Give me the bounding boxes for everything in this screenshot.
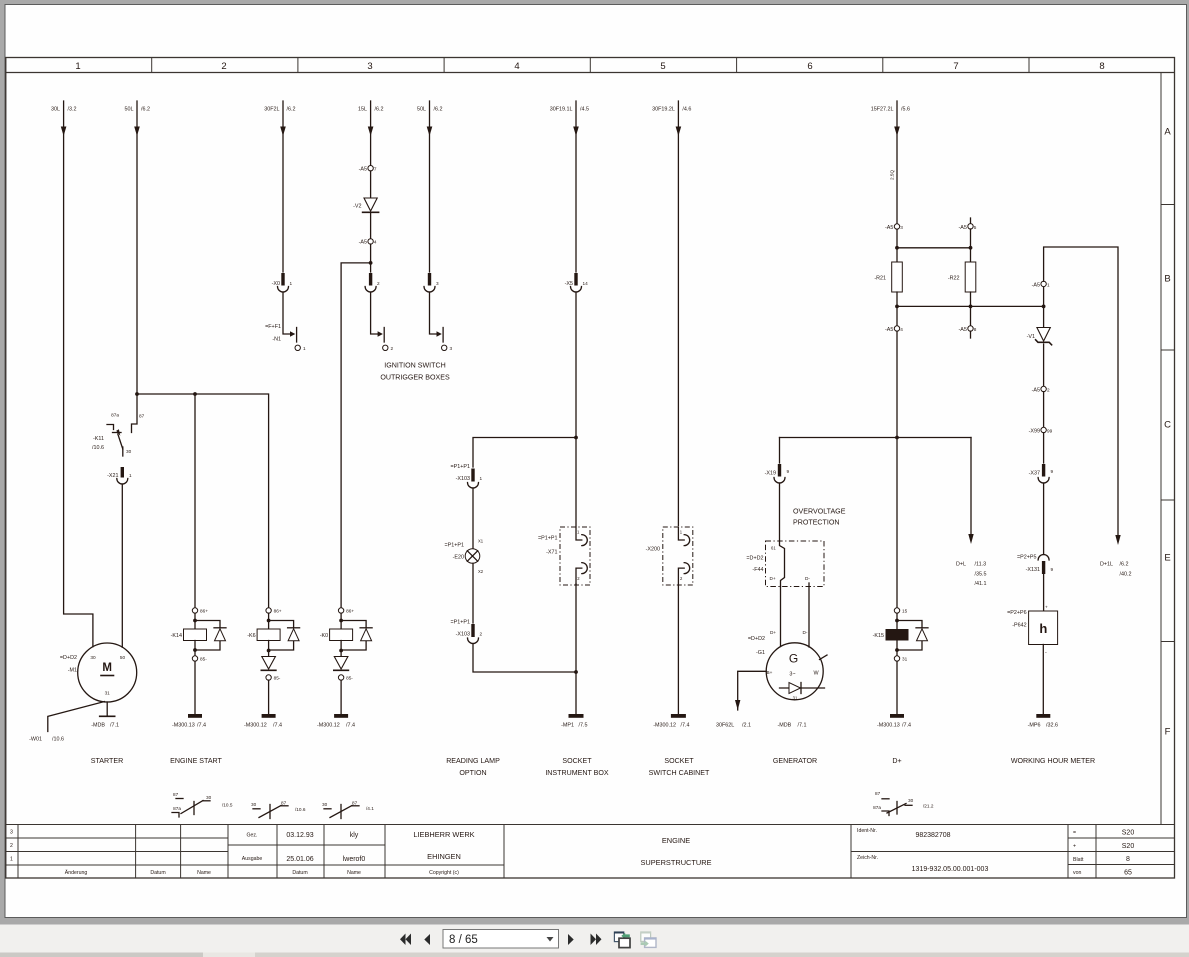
svg-text:2: 2 [480, 632, 483, 637]
svg-text:-R21: -R21 [874, 276, 886, 282]
svg-text:Ausgabe: Ausgabe [242, 856, 263, 862]
svg-text:/7.4: /7.4 [346, 723, 355, 729]
svg-text:25.01.06: 25.01.06 [286, 856, 313, 863]
svg-text:-M300.13: -M300.13 [172, 723, 195, 729]
svg-text:-MDB: -MDB [778, 723, 792, 729]
wire 15L feed [370, 101, 372, 166]
svg-text:SOCKET: SOCKET [664, 757, 694, 765]
svg-text:/6.2: /6.2 [1120, 562, 1129, 568]
svg-text:-X131: -X131 [1026, 567, 1040, 573]
wire top bus to R22 [897, 247, 971, 249]
svg-text:4: 4 [374, 240, 377, 245]
wire branch to K0 [341, 263, 371, 607]
relay contact -K11 [132, 394, 138, 433]
svg-text:31: 31 [902, 657, 908, 662]
svg-text:-A5: -A5 [359, 240, 367, 246]
connector -X19 pin 9 [779, 438, 781, 464]
svg-text:SUPERSTRUCTURE: SUPERSTRUCTURE [640, 858, 711, 867]
svg-text:/3.2: /3.2 [68, 107, 77, 113]
svg-text:Datum: Datum [292, 870, 307, 876]
connector -X103 pin 1 [471, 469, 474, 482]
svg-text:2: 2 [1047, 388, 1050, 393]
svg-text:86+: 86+ [200, 609, 208, 614]
connector pin 2 [369, 273, 372, 286]
terminal -A5 pin 4 lower [894, 326, 899, 331]
svg-text:/7.5: /7.5 [579, 723, 588, 729]
svg-text:3~: 3~ [789, 672, 795, 678]
wire D+1L branch [1044, 247, 1118, 537]
svg-text:lwerof0: lwerof0 [343, 856, 366, 863]
svg-text:4: 4 [900, 327, 903, 332]
svg-text:-X71: -X71 [546, 550, 557, 556]
svg-text:31: 31 [793, 696, 798, 701]
svg-text:D+1L: D+1L [1100, 562, 1113, 568]
svg-text:B+: B+ [767, 670, 773, 675]
svg-text:=P2+P5: =P2+P5 [1017, 555, 1036, 561]
diode generator internal [780, 687, 825, 689]
svg-text:-M300.12: -M300.12 [244, 723, 267, 729]
svg-text:-X37: -X37 [1029, 471, 1040, 477]
svg-text:-K11: -K11 [93, 436, 104, 442]
svg-text:-X21: -X21 [107, 473, 118, 479]
starter motor -M1 [78, 643, 137, 702]
svg-text:=: = [1073, 830, 1076, 836]
svg-text:OUTRIGGER BOXES: OUTRIGGER BOXES [380, 374, 450, 382]
svg-text:15L: 15L [358, 107, 367, 113]
page number combobox [443, 930, 559, 949]
svg-text:3: 3 [367, 61, 372, 72]
overvoltage protection -F44 box [766, 541, 825, 587]
wire 30F19.1L feed [575, 101, 577, 272]
toolbar strip [0, 919, 1189, 957]
wire 30F2L feed [282, 101, 284, 272]
wire motor ground [106, 702, 108, 716]
svg-text:30: 30 [322, 802, 328, 807]
svg-text:-A5: -A5 [359, 167, 367, 173]
next view icon (disabled) [641, 932, 651, 941]
relay coil -K6 [266, 608, 271, 613]
wire F44 to generator D+ [780, 587, 782, 647]
svg-text:-M300.13: -M300.13 [877, 723, 900, 729]
svg-text:2: 2 [377, 281, 380, 286]
svg-text:Ident-Nr.: Ident-Nr. [857, 828, 877, 834]
svg-text:=D+D2: =D+D2 [746, 556, 763, 562]
first page button [400, 934, 406, 946]
svg-text:50L: 50L [125, 107, 134, 113]
svg-text:5: 5 [660, 61, 665, 72]
svg-text:Name: Name [347, 870, 361, 876]
svg-text:2: 2 [221, 61, 226, 72]
terminal -A5 pin 4 [370, 213, 372, 239]
svg-text:EHINGEN: EHINGEN [427, 852, 461, 861]
resistor -R21 [892, 262, 903, 292]
svg-text:E: E [1164, 553, 1170, 564]
svg-text:/6.2: /6.2 [375, 107, 384, 113]
svg-text:WORKING HOUR METER: WORKING HOUR METER [1011, 757, 1095, 765]
svg-text:8 / 65: 8 / 65 [449, 934, 478, 946]
svg-text:4: 4 [514, 61, 519, 72]
W terminal stub [820, 655, 828, 660]
svg-text:/7.1: /7.1 [798, 723, 807, 729]
wire K15 ground [896, 661, 898, 714]
svg-text:OVERVOLTAGE: OVERVOLTAGE [793, 508, 846, 516]
svg-text:/2.1: /2.1 [742, 723, 751, 729]
connector -X103 pin 2 [471, 624, 474, 637]
svg-text:15: 15 [902, 609, 908, 614]
svg-text:87: 87 [281, 801, 287, 806]
svg-text:14: 14 [583, 281, 589, 286]
svg-text:1319-932.05.00.001-003: 1319-932.05.00.001-003 [912, 866, 989, 873]
svg-text:-A5: -A5 [959, 225, 967, 231]
svg-text:-M300.12: -M300.12 [317, 723, 340, 729]
svg-text:-: - [1045, 650, 1047, 656]
right letters column [1160, 73, 1162, 825]
svg-text:=D+D2: =D+D2 [748, 636, 765, 642]
hour meter -P642 [1029, 611, 1058, 645]
node R21 top [896, 229, 898, 262]
wire [1043, 483, 1045, 555]
svg-text:D+: D+ [770, 630, 776, 635]
socket -X71 dashed box [560, 527, 590, 585]
svg-text:1: 1 [10, 857, 13, 863]
svg-text:/7.4: /7.4 [681, 723, 690, 729]
svg-text:-X103: -X103 [456, 476, 470, 482]
node 50L bus [135, 392, 139, 396]
svg-text:30L: 30L [51, 107, 60, 113]
diode K6 series [262, 657, 276, 670]
svg-text:-X5: -X5 [565, 281, 573, 287]
svg-text:Blatt: Blatt [1073, 857, 1084, 863]
svg-text:-X103: -X103 [456, 632, 470, 638]
svg-text:/10.6: /10.6 [52, 737, 64, 743]
node junction 15L branch to K0 [370, 244, 372, 272]
svg-text:87: 87 [173, 792, 179, 797]
svg-text:/7.4: /7.4 [273, 723, 282, 729]
svg-text:-M300.12: -M300.12 [653, 723, 676, 729]
ground -M300.12 [671, 714, 686, 718]
wire 50L feed to K11/bus [136, 101, 138, 394]
svg-text:-R22: -R22 [948, 276, 960, 282]
last page button [591, 934, 597, 946]
svg-text:85-: 85- [346, 676, 353, 681]
svg-text:1: 1 [1047, 282, 1050, 287]
svg-text:982382708: 982382708 [915, 832, 950, 839]
svg-text:/7.4: /7.4 [197, 723, 206, 729]
svg-text:-A5: -A5 [1032, 388, 1040, 394]
relay coil -K14 [192, 608, 197, 613]
svg-text:03.12.93: 03.12.93 [286, 832, 313, 839]
svg-text:/6.2: /6.2 [287, 107, 296, 113]
lamp -E20 [465, 549, 480, 564]
wire generator bus [780, 437, 972, 439]
svg-text:6: 6 [807, 61, 812, 72]
svg-text:/41.1: /41.1 [975, 581, 987, 587]
svg-text:Änderung: Änderung [65, 869, 88, 876]
svg-text:-X0: -X0 [272, 281, 280, 287]
svg-text:/7.1: /7.1 [110, 723, 119, 729]
svg-text:/4.5: /4.5 [580, 107, 589, 113]
socket -X200 dashed box [663, 527, 693, 585]
wire K14 feed [194, 394, 196, 607]
svg-text:X2: X2 [478, 569, 484, 574]
svg-text:ENGINE START: ENGINE START [170, 757, 222, 765]
svg-text:87a: 87a [873, 805, 881, 810]
header column numbers [75, 61, 1104, 72]
previous view icon [614, 932, 623, 942]
svg-text:/11.3: /11.3 [975, 562, 987, 568]
svg-text:-M1: -M1 [68, 668, 77, 674]
wire + terminal 3 ignition [430, 292, 437, 334]
svg-text:7: 7 [953, 61, 958, 72]
wire lamp return [473, 644, 576, 673]
svg-text:/7.4: /7.4 [902, 723, 911, 729]
svg-text:15F27.2L: 15F27.2L [871, 107, 894, 113]
connector -X21 pin 1 [121, 467, 124, 478]
svg-text:85-: 85- [274, 676, 281, 681]
svg-text:M: M [102, 662, 112, 674]
generator -G1 [766, 643, 823, 700]
header band bottom line [6, 72, 1175, 74]
svg-text:-F44: -F44 [752, 567, 763, 573]
terminal -A5 pin 5 [970, 218, 972, 224]
svg-text:/4.6: /4.6 [682, 107, 691, 113]
wire bottom bus [897, 292, 971, 326]
svg-text:/6.2: /6.2 [141, 107, 150, 113]
svg-text:65: 65 [1124, 870, 1132, 877]
svg-text:-A5: -A5 [885, 327, 893, 333]
terminal -A5 pin 3 [894, 224, 899, 229]
svg-text:1: 1 [75, 61, 80, 72]
terminal -A5 pin 7 [368, 166, 373, 171]
wire -W01 cable [48, 702, 105, 732]
wire B+ to 30F62L [738, 671, 767, 710]
svg-text:-A5: -A5 [959, 327, 967, 333]
wire K6 ground [268, 680, 270, 714]
relay coil -K15 [894, 608, 899, 613]
diode K6 suppressor [269, 621, 294, 651]
svg-text:30: 30 [126, 449, 132, 454]
svg-text:h: h [1039, 621, 1047, 636]
svg-text:87: 87 [352, 801, 358, 806]
svg-text:=P1+P1: =P1+P1 [451, 620, 470, 626]
resistor -R22 [965, 262, 976, 292]
svg-text:READING LAMP: READING LAMP [446, 757, 500, 765]
svg-text:1: 1 [129, 473, 132, 478]
svg-text:30F19.2L: 30F19.2L [652, 107, 675, 113]
svg-text:3: 3 [450, 346, 453, 351]
wire [472, 488, 474, 549]
header column dividers [152, 58, 1029, 73]
svg-text:/5.6: /5.6 [901, 107, 910, 113]
svg-text:D+: D+ [892, 757, 901, 765]
svg-text:9: 9 [1051, 567, 1054, 572]
svg-text:99: 99 [1047, 429, 1053, 434]
svg-text:+: + [1073, 844, 1076, 850]
svg-text:87: 87 [139, 414, 145, 419]
svg-text:Zeich-Nr.: Zeich-Nr. [857, 855, 878, 861]
diode -V2 [370, 171, 372, 198]
wire down to lamp bus [575, 292, 577, 438]
wire [779, 483, 781, 541]
wire reading lamp branch [473, 438, 576, 468]
wire to starter 50 [121, 484, 123, 647]
node lamp branch [574, 436, 578, 440]
diode -V1 [1043, 306, 1045, 327]
connector -X5 pin 14 [574, 273, 577, 286]
svg-text:30: 30 [206, 795, 212, 800]
svg-text:kly: kly [350, 832, 359, 839]
svg-text:31: 31 [105, 691, 111, 696]
svg-text:/6.2: /6.2 [434, 107, 443, 113]
wire 30L feed to starter [64, 101, 93, 647]
svg-text:-E20: -E20 [453, 555, 464, 561]
wire D+L branch [970, 438, 972, 537]
wire K0 ground [340, 680, 342, 714]
svg-text:=P1+P1: =P1+P1 [538, 536, 557, 542]
svg-text:LIEBHERR WERK: LIEBHERR WERK [413, 830, 474, 839]
svg-text:D+: D+ [770, 576, 776, 581]
svg-text:-X19: -X19 [765, 471, 776, 477]
svg-text:86+: 86+ [346, 609, 354, 614]
svg-text:-V1: -V1 [1027, 334, 1035, 340]
wire to ground [677, 585, 679, 714]
svg-text:-X99: -X99 [1029, 429, 1040, 435]
svg-text:-K0: -K0 [320, 633, 328, 639]
svg-text:Gez.: Gez. [247, 833, 258, 839]
svg-text:D-: D- [803, 630, 808, 635]
svg-text:GENERATOR: GENERATOR [773, 757, 817, 765]
diode K14 suppressor [195, 621, 220, 651]
next page button [568, 934, 574, 945]
svg-text:=F+F1: =F+F1 [265, 324, 281, 330]
terminal -A5 pin 2 [1043, 344, 1045, 386]
svg-text:-N1: -N1 [272, 337, 281, 343]
svg-text:ENGINE: ENGINE [662, 836, 690, 845]
svg-text:2: 2 [391, 346, 394, 351]
svg-text:30: 30 [90, 655, 96, 660]
svg-text:=D+D2: =D+D2 [60, 655, 77, 661]
svg-text:X1: X1 [478, 539, 484, 544]
svg-text:1: 1 [303, 346, 306, 351]
svg-text:87a: 87a [173, 806, 181, 811]
svg-text:G: G [789, 652, 798, 666]
svg-text:+: + [1045, 605, 1048, 610]
diode K15 suppressor [897, 621, 922, 651]
svg-text:-K14: -K14 [171, 633, 182, 639]
connector -X131 pin 9 [1038, 555, 1049, 561]
title block grid [6, 825, 1175, 879]
prev page button [424, 934, 430, 945]
svg-text:1: 1 [480, 476, 483, 481]
ground -MP1 [569, 714, 584, 718]
svg-text:-K6: -K6 [247, 633, 255, 639]
svg-text:87: 87 [875, 791, 881, 796]
svg-text:3: 3 [10, 830, 13, 836]
connector -X37 pin 9 [1043, 433, 1045, 463]
svg-text:30F62L: 30F62L [716, 723, 734, 729]
wire [1043, 574, 1045, 611]
wire K15 feed [896, 331, 898, 608]
svg-text:-K15: -K15 [873, 633, 884, 639]
svg-text:-P642: -P642 [1012, 623, 1026, 629]
svg-text:-MP1: -MP1 [561, 723, 574, 729]
diode K0 series [334, 657, 348, 670]
svg-text:85-: 85- [200, 657, 207, 662]
svg-text:2: 2 [10, 843, 13, 849]
terminal -A5 pin 1 [1043, 287, 1045, 305]
svg-text:Datum: Datum [150, 870, 165, 876]
svg-text:=P1+P1: =P1+P1 [451, 464, 470, 470]
wire meter ground [1042, 645, 1044, 715]
svg-text:87a: 87a [111, 413, 119, 418]
wire 50L outrigger feed [429, 101, 431, 272]
svg-text:30: 30 [908, 798, 914, 803]
svg-text:/35.5: /35.5 [975, 572, 987, 578]
svg-text:-G1: -G1 [756, 650, 765, 656]
svg-text:30: 30 [251, 802, 257, 807]
svg-text:SOCKET: SOCKET [562, 757, 592, 765]
svg-text:/10.6: /10.6 [295, 807, 306, 812]
svg-text:Copyright (c): Copyright (c) [429, 870, 459, 876]
svg-text:/4.1: /4.1 [366, 806, 374, 811]
svg-text:8: 8 [1126, 856, 1130, 863]
svg-text:/10.5: /10.5 [222, 803, 233, 808]
svg-text:SWITCH CABINET: SWITCH CABINET [649, 769, 710, 777]
svg-text:-MDB: -MDB [91, 723, 105, 729]
svg-text:7: 7 [374, 167, 377, 172]
svg-text:A: A [1164, 127, 1171, 138]
svg-text:30F19.1L: 30F19.1L [550, 107, 573, 113]
svg-text:von: von [1073, 870, 1081, 876]
svg-text:/10.6: /10.6 [92, 445, 104, 451]
svg-text:Name: Name [197, 870, 211, 876]
wire 50L bus [137, 394, 269, 607]
svg-text:3: 3 [436, 281, 439, 286]
svg-text:1: 1 [290, 281, 293, 286]
wire socket X71 passthrough [576, 438, 582, 541]
svg-text:86+: 86+ [274, 609, 282, 614]
svg-text:2.5Q: 2.5Q [890, 169, 895, 180]
svg-text:D-: D- [805, 576, 810, 581]
connector -X0 pin 1 [281, 273, 284, 286]
svg-text:8: 8 [974, 327, 977, 332]
svg-text:C: C [1164, 420, 1171, 431]
wire + terminal 2 ignition [371, 292, 378, 334]
svg-text:INSTRUMENT BOX: INSTRUMENT BOX [545, 769, 609, 777]
wire 15F27.2L feed [896, 101, 898, 224]
svg-text:/40.2: /40.2 [1120, 572, 1132, 578]
terminal -X99 pin 99 [1043, 392, 1045, 428]
svg-text:61: 61 [771, 546, 776, 551]
svg-text:F: F [1165, 727, 1171, 738]
relay coil -K0 [338, 608, 343, 613]
diode K0 suppressor [341, 621, 366, 651]
svg-text:S20: S20 [1122, 830, 1135, 837]
svg-text:/21.2: /21.2 [923, 804, 934, 809]
svg-text:IGNITION SWITCH: IGNITION SWITCH [384, 362, 445, 370]
svg-text:50: 50 [120, 655, 126, 660]
wire to ground [575, 584, 577, 714]
svg-text:9: 9 [787, 469, 790, 474]
svg-text:-A5: -A5 [1032, 282, 1040, 288]
svg-text:S20: S20 [1122, 843, 1135, 850]
svg-text:=P1+P1: =P1+P1 [445, 543, 464, 549]
connector pin 3 [428, 273, 431, 286]
svg-text:50L: 50L [417, 107, 426, 113]
svg-text:8: 8 [1099, 61, 1104, 72]
svg-text:PROTECTION: PROTECTION [793, 519, 840, 527]
wire [472, 563, 474, 623]
